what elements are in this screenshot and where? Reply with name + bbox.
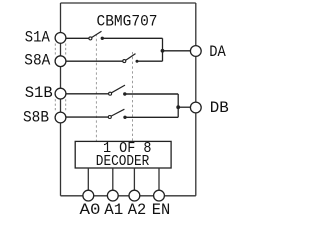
wire: A2 stem [133, 168, 135, 190]
pin DB [190, 102, 201, 113]
switch S1A blade [92, 31, 102, 37]
switch S1A contact [89, 37, 92, 40]
svg-text:DECODER: DECODER [96, 153, 150, 170]
svg-text:A1: A1 [104, 201, 123, 219]
switch S8B contact [108, 116, 111, 119]
svg-text:S8A: S8A [24, 51, 50, 69]
pin DA [190, 46, 201, 57]
pin S1B [55, 88, 66, 99]
wire: A1 stem [112, 168, 114, 190]
svg-text:DB: DB [210, 99, 229, 117]
node: A-group junction dot [161, 49, 165, 53]
wire: S1B input [66, 93, 109, 95]
switch S8A contact [123, 60, 126, 63]
wire: outer box bottom edge [61, 195, 196, 197]
pin S1A [55, 33, 66, 44]
node: S8B output dot [123, 116, 126, 119]
pin A0 [83, 190, 94, 201]
wire: B-group join vertical [177, 94, 179, 117]
wire: S8A input [66, 60, 123, 62]
node: S1A output dot [101, 37, 104, 40]
switch S1B contact [109, 92, 112, 95]
wire: to DB [178, 106, 190, 108]
wire: S8A output [137, 60, 163, 62]
switch S1B blade [111, 85, 125, 93]
wire: S1A output [102, 37, 162, 39]
node: S1B output dot [123, 92, 126, 95]
node: omitted pins S2B-S7B dashed rails [55, 99, 65, 112]
wire: outer box right edge [195, 3, 197, 196]
pin A1 [107, 190, 118, 201]
switch S8A blade [126, 54, 136, 61]
pin S8B [55, 112, 66, 123]
svg-text:S8B: S8B [23, 108, 49, 126]
wire: A-group join vertical [162, 38, 164, 61]
svg-text:DA: DA [209, 43, 226, 61]
node: S8A output dot [136, 60, 139, 63]
wire: to DA [163, 50, 191, 52]
node: B-group junction dot [176, 105, 180, 109]
pin EN [154, 190, 165, 201]
pin A2 [129, 190, 140, 201]
svg-text:EN: EN [152, 201, 171, 219]
wire: S8B input [66, 116, 109, 118]
wire: A0 stem [87, 168, 89, 190]
wire: outer box left edge [60, 3, 62, 196]
wire: S1B output [125, 93, 178, 95]
svg-text:S1B: S1B [25, 84, 53, 102]
switch S8B blade [111, 109, 124, 116]
decoder box U1 [75, 141, 171, 168]
wire: decoder control dashed line 1 [95, 34, 97, 141]
node: omitted pins S2A-S7A dashed rails [55, 44, 65, 56]
svg-text:A2: A2 [128, 201, 147, 219]
wire: S8B output [125, 116, 178, 118]
wire: outer box top edge [61, 2, 196, 4]
svg-text:S1A: S1A [25, 28, 50, 46]
svg-text:A0: A0 [80, 201, 101, 219]
svg-text:CBMG707: CBMG707 [97, 12, 158, 30]
wire: EN stem [158, 168, 160, 190]
wire: S1A input [66, 37, 89, 39]
wire: decoder control dashed line 2 [132, 52, 134, 141]
pin S8A [55, 56, 66, 67]
